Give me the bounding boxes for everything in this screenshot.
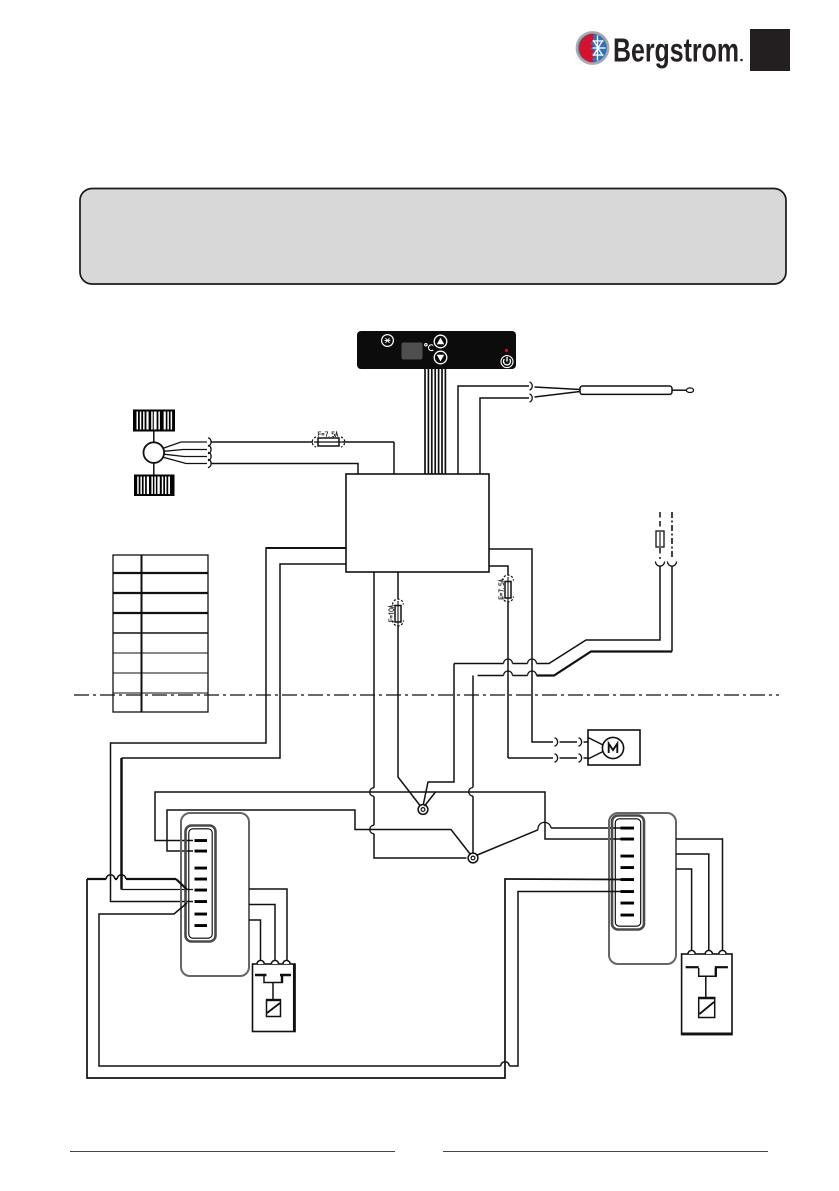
note box (empty grey rounded rectangle) [80, 189, 786, 285]
blower resistor block (top) [133, 410, 175, 432]
power button [501, 356, 513, 368]
relay K1 contact [255, 974, 267, 977]
relay K2 (right) [682, 954, 732, 1035]
wire: box left output 1 (to left unit row 6) [111, 548, 347, 902]
sensor connector arcs [530, 382, 533, 390]
power LED [505, 349, 508, 352]
right unit terminal pins [621, 827, 635, 917]
degC label [425, 344, 434, 351]
wire harness from panel to control box [425, 369, 445, 474]
sensor probe body [580, 386, 672, 394]
wire: battery + feed down to junction J1 [537, 566, 661, 664]
fan/auto button [382, 335, 394, 347]
corner black square [750, 29, 790, 71]
left unit outputs to relay K1 [249, 889, 287, 960]
left evaporator unit (outer shell) [181, 813, 249, 976]
wire: box right output to condenser motor (upper) [489, 549, 553, 742]
battery connector - (dash-dot) [671, 512, 673, 559]
wire: box left output 2 (to left unit row 5) [122, 564, 347, 758]
right condenser unit (outer shell) [609, 813, 676, 964]
fuse F=7.5A (vertical, condenser) [499, 575, 514, 602]
LCD display [402, 343, 423, 360]
left unit terminal pins [195, 839, 208, 927]
wire: bus H2/H3 (left unit row2 toward right unit row1) [167, 810, 471, 855]
wire: bus H1 (left unit row1 to right unit row2) [155, 792, 621, 841]
power bus: left unit row6 - inner bottom loop - right unit row6 [99, 903, 501, 1066]
blower resistor block (bottom) [134, 475, 175, 497]
right unit outputs to relay K2 [676, 839, 723, 951]
down button [434, 351, 447, 364]
centerline (dash-dot) [74, 694, 779, 696]
blower motor leads [163, 442, 207, 464]
Bergstrom logo mark [577, 32, 608, 63]
fuse F=7.5A (blower) [312, 432, 345, 447]
relay K1 (left) [253, 964, 296, 1032]
junction J2 [468, 853, 478, 863]
up button [434, 335, 447, 348]
svg-text:Bergstrom: Bergstrom [613, 33, 739, 70]
wire: J2 diagonal up to right unit row 1 [477, 830, 538, 855]
footer rule right [443, 1151, 768, 1153]
legend table [113, 555, 208, 712]
blower ground wire [212, 464, 359, 475]
blower feed wire with fuse [212, 441, 314, 443]
wire: box right output through fuse to condenser motor (lower) [489, 566, 508, 575]
control panel [357, 331, 516, 369]
bold ground bus: left unit row5 - bottom loop - right unit row5 [176, 879, 187, 890]
blower motor [144, 442, 165, 463]
wire: box bottom output through fuse F=10A to junction J1 [397, 572, 399, 599]
relay K2 contact [686, 966, 699, 968]
battery connector + (dashed, with inline fuse) [659, 512, 661, 559]
left unit terminal strip [186, 826, 216, 942]
wire: box bottom output to junction J2 [373, 572, 375, 788]
footer rule left [70, 1151, 395, 1153]
condenser fan motor M [588, 730, 640, 765]
control box [346, 474, 489, 572]
wire: battery - feed down to junction J2 [671, 566, 673, 652]
right unit terminal strip [612, 816, 644, 930]
fuse F=10A [389, 599, 404, 626]
relay K1 coil [267, 1000, 281, 1017]
junction J1 [418, 805, 428, 815]
cab temperature sensor wires [458, 386, 580, 474]
relay K2 coil [699, 998, 715, 1018]
blower lead connector arcs [208, 438, 211, 468]
